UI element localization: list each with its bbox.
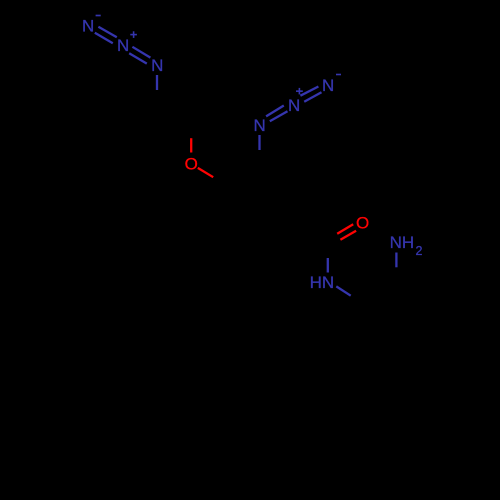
azide 1 minus charge <box>96 15 101 17</box>
carbonyl C=O double bond <box>337 224 356 239</box>
svg-text:HN: HN <box>310 273 335 292</box>
svg-text:N: N <box>82 17 94 36</box>
svg-text:N: N <box>151 56 163 75</box>
wire amine N down to CH2 <box>395 253 397 268</box>
azide 2 plus charge <box>296 88 303 95</box>
wire amide N to CH <box>336 286 350 295</box>
azide 2 minus charge <box>336 74 341 76</box>
azide 1 plus charge <box>130 31 137 38</box>
wire amide N up to carbonyl C <box>327 258 329 273</box>
azide 2 double bond N=N+ <box>266 106 287 122</box>
svg-text:O: O <box>185 154 198 173</box>
wire ether O to ring <box>198 168 213 177</box>
wire N to CH2 (azide 1) <box>156 75 158 90</box>
svg-text:N: N <box>117 36 129 55</box>
azide 1 double bond N-=N+ <box>95 27 117 43</box>
svg-text:NH: NH <box>390 233 415 252</box>
wire N to ring (azide 2) <box>258 135 260 150</box>
azide 2 double bond N+=N- <box>300 87 321 102</box>
svg-text:N: N <box>254 116 266 135</box>
svg-text:N: N <box>322 76 334 95</box>
wire CH2 to ether O <box>190 138 192 152</box>
svg-text:N: N <box>288 96 300 115</box>
azide 1 double bond N+=N <box>129 47 150 64</box>
svg-text:2: 2 <box>416 244 423 258</box>
svg-text:O: O <box>356 214 369 233</box>
